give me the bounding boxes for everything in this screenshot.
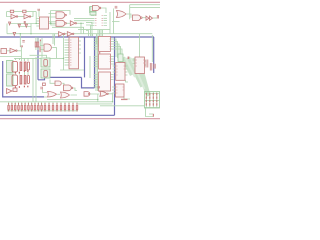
wire bus blue riser x114.5 — [114, 37, 116, 115]
tick C1 — [24, 21, 25, 24]
capacitor K2 bars — [20, 76, 22, 85]
IC2 pins left — [94, 57, 98, 67]
grid resistor ticks — [146, 93, 158, 106]
IC_C pins — [133, 60, 147, 65]
gate b3 out — [76, 22, 84, 24]
d4 gate out — [142, 17, 146, 19]
cap inside box mid2 — [44, 71, 48, 78]
wire vertical x33 — [32, 58, 34, 101]
top right wire y7.6 — [130, 7, 160, 9]
wire left of IC_B — [112, 87, 116, 93]
relay bottom pin marks — [15, 70, 29, 87]
gate d2 out — [66, 22, 70, 24]
wire right of IC_A — [125, 66, 128, 75]
inverter U1B — [24, 14, 29, 18]
relay K1 body — [12, 62, 18, 73]
green polygon swath right — [119, 58, 149, 97]
wire between inverters — [18, 16, 25, 18]
gate X6 xor — [100, 91, 107, 96]
top right vertical x129.7 — [129, 5, 131, 20]
IC1 pins right + elbows — [111, 39, 122, 61]
grid wires right — [145, 93, 160, 107]
led D2 — [18, 24, 21, 27]
wire vertical x42 — [41, 38, 43, 57]
diode D4 on y33.7 — [13, 32, 16, 35]
nested elbows left of IC1 — [86, 22, 92, 36]
IC1 pins left — [94, 39, 98, 49]
IC top pins left — [74, 16, 95, 26]
grid box right — [145, 92, 160, 109]
IC top pins right — [104, 16, 108, 26]
wire y58.4 — [14, 57, 64, 59]
wire bus blue riser x38 — [37, 37, 39, 80]
wire left of IC_A — [113, 66, 116, 72]
resistor RV1 — [35, 42, 36, 47]
red comp below box — [43, 83, 46, 86]
resistor row bottom stubs — [9, 110, 77, 111]
big IC U3 — [69, 37, 79, 69]
long green wire y99.5 — [47, 99, 98, 101]
vertical green x139.5 — [139, 34, 141, 57]
red tick bottom right — [153, 114, 154, 117]
wire led stub — [25, 24, 27, 27]
wire vertical x24.3 — [23, 58, 25, 61]
or gate G5 — [117, 11, 127, 18]
wire bus blue main horizontal — [0, 36, 154, 38]
wire gate mid inputs — [40, 34, 54, 50]
cap pair right 1 — [146, 60, 148, 68]
long green wire y33.7 — [0, 5, 160, 117]
tick pin x21.7 — [21, 45, 22, 47]
IC2 pins right — [111, 57, 114, 65]
long green wire y101.8 — [0, 101, 113, 103]
small rect bottom left — [13, 88, 17, 92]
wire y26.5 leds — [19, 24, 31, 27]
resistor RV2 — [37, 42, 38, 47]
pin tick top x38 — [38, 9, 39, 11]
resistor R1b — [23, 10, 26, 13]
wire gate mid output — [52, 48, 56, 59]
block A — [1, 49, 7, 54]
wire y21.6 left of x114 — [112, 21, 120, 23]
xor cluster wires — [43, 80, 87, 98]
wire after inverter2 — [31, 12, 34, 17]
verticals right of gate cluster — [81, 23, 84, 33]
IC C right — [135, 57, 145, 74]
and gate mid G8 — [44, 44, 51, 51]
gate X1 — [55, 81, 61, 86]
wire y29.6 long — [78, 29, 110, 31]
IC U6 — [99, 72, 111, 91]
wire y33.7 stub left — [6, 24, 8, 34]
relay top stubs left — [16, 58, 29, 61]
wire vertical x36.2 — [35, 12, 37, 24]
buffer G3 — [70, 21, 75, 26]
g6 input pin — [98, 89, 100, 92]
wire y70 right — [124, 80, 130, 99]
junction dots — [20, 23, 114, 103]
wire bottom of big IC — [60, 69, 84, 71]
and gate G1 with feedback — [56, 12, 65, 19]
tick x41 — [41, 87, 42, 90]
cap inside box mid1 — [44, 60, 48, 67]
net box 2 — [90, 12, 96, 15]
diode D1 — [9, 22, 11, 25]
relay frame left 1 — [7, 61, 14, 73]
IC3 pins right — [111, 75, 114, 80]
red dot right mid — [128, 57, 130, 60]
wire vertical x36 — [35, 57, 37, 102]
wire bus blue bottom horizontal — [0, 114, 115, 116]
wire bus blue riser x84.5 — [84, 37, 86, 77]
wire bus blue riser x94.5 — [94, 37, 96, 88]
wire gateB out — [16, 50, 21, 52]
vertical green x90 — [89, 56, 91, 78]
led D3 — [25, 24, 28, 27]
wire vertical x31 mid — [30, 27, 32, 34]
cap pair right 2 — [150, 63, 152, 71]
relay pink components — [12, 62, 30, 86]
nested elbows 2 — [93, 30, 103, 47]
gate X3 or — [48, 92, 57, 98]
resistor pair verticals — [36, 37, 38, 50]
IC B right — [116, 84, 125, 97]
IC U2 top-left — [40, 17, 49, 29]
and top gate in/out — [90, 7, 107, 14]
buffer bottom left — [7, 89, 13, 94]
or gate out — [126, 14, 131, 18]
tick x98 — [98, 86, 99, 88]
vertical pair left of ICs — [96, 38, 98, 92]
and gate G6 — [133, 15, 141, 21]
long green wire y104 — [78, 103, 113, 105]
vertical x110 — [109, 12, 111, 34]
wire vertical x20 mid — [19, 34, 21, 47]
big IC right pins — [79, 41, 82, 53]
relay frame mid 1 — [41, 58, 50, 67]
wire y27.3 — [52, 26, 84, 28]
IC U5 — [99, 54, 111, 69]
big IC left pins — [65, 40, 70, 65]
feedback loop top gate d1 — [51, 11, 71, 24]
ticks x22.5 — [22, 41, 25, 42]
red dot top — [40, 40, 41, 42]
wire vertical x39 pin — [38, 10, 40, 18]
wire y56.5 left — [0, 56, 21, 58]
frame top red line — [0, 1, 160, 3]
wire gateA to gateB — [7, 50, 10, 52]
red bar input — [40, 46, 41, 52]
inverter T2 — [67, 32, 72, 37]
wire y23.5 — [9, 23, 57, 25]
tick right end — [157, 15, 158, 19]
capacitor K1 bars — [20, 62, 22, 71]
xor cluster out wires — [90, 94, 113, 102]
grid verticals right — [146, 92, 157, 108]
IC A right — [116, 63, 125, 81]
gate d1 inputs — [49, 14, 57, 18]
right small box — [118, 54, 123, 62]
inverter B — [10, 48, 16, 53]
top-left gate wire y16.5 — [7, 12, 12, 17]
vertical green x113.5 — [113, 9, 115, 34]
resistor row pin dots — [8, 103, 77, 111]
frame bottom red line — [0, 118, 160, 120]
IC inner pin ticks — [70, 16, 145, 94]
gate A input wire — [0, 50, 1, 52]
resistor row bottom-left — [8, 105, 78, 109]
relay K2 body — [12, 75, 18, 86]
buffer pair G7 — [146, 16, 153, 20]
IC tl left stubs — [36, 19, 39, 27]
wire vertical x21.4 — [20, 47, 22, 61]
inverter T1 — [59, 32, 64, 37]
buffer out — [153, 17, 157, 19]
IC B bottom red bar — [121, 99, 128, 100]
capacitor C2 — [115, 6, 117, 9]
mark between IC4 IC5 — [98, 53, 100, 54]
resistor row top wire stubs — [9, 102, 77, 106]
relay row1 bottom stubs — [16, 70, 29, 75]
wire bus blue jog horizontal — [38, 77, 82, 79]
wire bus blue riser x154 — [153, 37, 155, 73]
wire bus blue left vertical — [3, 61, 44, 97]
IC3 pins left — [94, 75, 98, 88]
wire bus blue U bottom — [82, 77, 95, 88]
green hatched boxes — [7, 7, 160, 109]
gate X5 — [84, 92, 90, 97]
gate d2 inputs — [49, 22, 57, 25]
net box 1 — [90, 7, 96, 12]
relay frame mid 2 — [41, 69, 50, 78]
resistor R1a — [10, 10, 13, 13]
inverter U1A — [11, 14, 16, 18]
wire vertical x63.5 — [63, 34, 65, 70]
relay frame left 2 — [7, 74, 14, 86]
top-left wire y11.6 — [7, 11, 37, 13]
and gate top G4 — [93, 6, 100, 11]
resistor row bottom wire — [7, 110, 78, 112]
long green wire y105.8 — [100, 105, 145, 107]
grid bottom stub — [146, 108, 154, 117]
IC U4 — [99, 36, 111, 51]
vertical x97.8 — [97, 94, 99, 102]
gate X2 — [64, 85, 72, 91]
vertical green x152.3 — [151, 35, 153, 62]
wire y55.3 — [30, 55, 47, 58]
gate X4 xor — [61, 92, 70, 98]
top right wire y4.7 — [130, 4, 160, 6]
and gate G2 — [56, 20, 65, 26]
